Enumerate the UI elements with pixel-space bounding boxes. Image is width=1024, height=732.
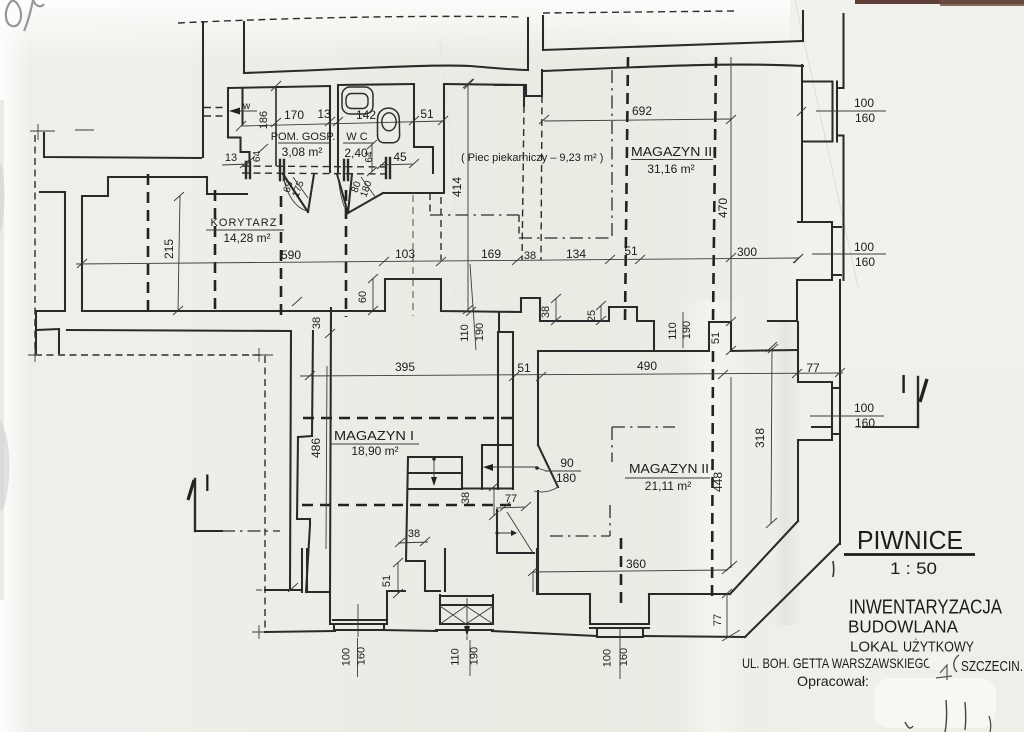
svg-text:38: 38	[540, 306, 552, 318]
svg-text:190: 190	[474, 323, 486, 341]
WC toilet	[378, 108, 400, 143]
dashed west boundary	[34, 135, 36, 355]
svg-text:51: 51	[381, 575, 393, 587]
svg-text:160: 160	[618, 648, 630, 666]
svg-text:64: 64	[252, 151, 263, 163]
wall: east inner below W2	[768, 280, 797, 321]
svg-text:45: 45	[393, 150, 407, 164]
ticks pom gosp top corner	[271, 79, 474, 91]
wall: south MAG II west part	[537, 549, 590, 594]
svg-text:BUDOWLANA: BUDOWLANA	[848, 617, 958, 637]
door MAG II leaf	[538, 445, 558, 487]
svg-text:14,28 m²: 14,28 m²	[223, 231, 270, 245]
door POM.GOSP swing	[283, 174, 314, 212]
svg-text:486: 486	[309, 438, 323, 458]
svg-text:110: 110	[450, 648, 462, 666]
svg-text:UŻYTKOWY: UŻYTKOWY	[903, 638, 974, 656]
svg-text:490: 490	[637, 359, 657, 373]
wall: below piec corner	[383, 192, 444, 194]
heavy dash bay B3 axis	[620, 538, 623, 606]
svg-text:38: 38	[524, 250, 536, 262]
svg-text:100: 100	[854, 96, 874, 110]
svg-text:60: 60	[357, 291, 369, 303]
svg-text:180: 180	[556, 471, 576, 485]
dim 486 vertical	[326, 366, 327, 549]
svg-text:( Piec piekarniczy – 9,23 m² ): ( Piec piekarniczy – 9,23 m² )	[461, 152, 603, 164]
handwritten remnants	[832, 561, 835, 577]
svg-text:395: 395	[395, 360, 415, 374]
svg-text:31,16 m²: 31,16 m²	[647, 162, 694, 176]
dim 77 bottom right	[722, 589, 740, 641]
wall: building top edge (inner)	[244, 66, 528, 73]
svg-text:100: 100	[854, 401, 874, 415]
wall: south wall MAG I area	[302, 549, 330, 592]
heavy dashed MAG III west	[625, 57, 628, 321]
svg-text:51: 51	[517, 361, 531, 375]
section mark left	[194, 479, 196, 531]
svg-text:38: 38	[408, 528, 420, 540]
dim 38 zigzag	[551, 294, 561, 325]
svg-text:INWENTARYZACJA: INWENTARYZACJA	[849, 597, 1003, 619]
wall: top-left corner block x528/x543	[527, 18, 529, 70]
svg-text:590: 590	[281, 248, 301, 262]
wall: POM.GOSP east / WC west	[330, 85, 338, 172]
wall: MAG I-II divider x513	[512, 332, 514, 489]
wall: MAG I west outer with niche	[297, 331, 313, 592]
svg-text:13: 13	[317, 107, 331, 121]
wall: MAG II west inner x538	[537, 351, 539, 594]
svg-text:100: 100	[602, 649, 614, 667]
white top band	[0, 0, 790, 60]
wall: drop x499	[499, 312, 513, 332]
wall: outer top edge y48 to NE corner	[543, 41, 803, 50]
svg-text:PIWNICE: PIWNICE	[857, 525, 963, 555]
svg-text:215: 215	[162, 239, 176, 259]
svg-text:160: 160	[356, 647, 368, 665]
chimney block MAG I	[406, 457, 462, 561]
stairs triangle	[497, 510, 534, 553]
wall: w-duct block	[228, 88, 250, 163]
dashed piec west verticals	[522, 106, 524, 260]
svg-text:LOKAL: LOKAL	[850, 639, 898, 656]
wall: long west vertical x291	[265, 331, 302, 590]
svg-text:51: 51	[420, 107, 434, 121]
dashed bottom-left boundary	[35, 354, 266, 356]
west cross mark	[44, 133, 201, 158]
svg-text:142: 142	[356, 108, 376, 122]
wall: east inner near W3	[797, 322, 799, 521]
handwriting 01 top-left	[6, 0, 44, 31]
svg-text:25: 25	[586, 310, 598, 322]
dim 414 vertical	[467, 83, 469, 310]
dim line y122 top rooms	[241, 121, 444, 126]
svg-text:103: 103	[395, 247, 415, 261]
svg-text:170: 170	[284, 108, 304, 122]
svg-text:77: 77	[806, 361, 820, 375]
dashed boundary x265	[264, 356, 266, 632]
svg-text:169: 169	[481, 247, 501, 261]
wall: MAG II north lower edge	[538, 350, 654, 352]
wall: east-mid horizontals	[654, 350, 797, 351]
heavy dashed MAG I north/south	[303, 417, 513, 420]
light dashed jamb x413	[412, 195, 414, 316]
heavy dashed MAG III east	[713, 57, 716, 322]
wall: piec step	[495, 70, 542, 96]
svg-text:3,08 m²: 3,08 m²	[282, 145, 323, 159]
wall: corridor west	[81, 196, 83, 311]
wall: vertical x203 top	[202, 22, 204, 157]
dim 215 vertical	[178, 196, 180, 311]
svg-text:Opracował:: Opracował:	[797, 673, 869, 689]
svg-text:186: 186	[258, 111, 270, 129]
dim 100/160 bay B1	[357, 604, 359, 637]
heavy dashed interior lines KORYTARZ	[147, 174, 150, 313]
svg-text:300: 300	[737, 245, 757, 259]
section mark right	[917, 377, 919, 427]
window bay B3	[590, 594, 649, 637]
svg-text:KORYTARZ: KORYTARZ	[211, 217, 278, 229]
dim 110/190 bay B2	[466, 636, 468, 640]
left edge scan smudges	[0, 160, 5, 235]
building bottom edge	[265, 630, 745, 637]
dim 110/190 left-mid rotated	[470, 264, 476, 350]
svg-text:100: 100	[854, 240, 874, 254]
small ticks	[288, 115, 778, 592]
dim 360	[533, 570, 727, 572]
window W1 right wall top	[803, 82, 844, 142]
wall: SE chamfer outer	[745, 544, 839, 637]
main dim line y263	[76, 258, 798, 264]
svg-text:318: 318	[753, 428, 767, 448]
wall: vertical x244 + top edge y71	[243, 22, 245, 72]
wall: inner top edge y70 right part	[543, 65, 803, 71]
svg-text:21,11 m²: 21,11 m²	[645, 479, 691, 493]
wall: piec east solid top	[523, 85, 525, 106]
dim 51 south notch	[393, 558, 403, 598]
dim 25 zigzag	[596, 301, 606, 325]
svg-text:414: 414	[450, 177, 464, 197]
wall: POM.GOSP top	[228, 86, 330, 88]
wall: NE corner verticals	[802, 11, 804, 41]
wall: piec west	[443, 84, 445, 192]
dim 448 vertical	[730, 377, 732, 568]
wall: SE chamfer inner	[730, 521, 798, 594]
wall: far west room block	[36, 192, 65, 330]
wall: top dashed boundary line	[178, 16, 521, 23]
dim 318 vertical	[771, 348, 772, 524]
svg-text:w: w	[242, 101, 251, 112]
partition bars	[246, 158, 390, 180]
dim 60	[368, 274, 378, 315]
svg-text:160: 160	[855, 255, 875, 269]
svg-text:160: 160	[855, 111, 875, 125]
svg-text:190: 190	[681, 321, 693, 339]
svg-text:100: 100	[341, 648, 353, 666]
wall: west piers bottom	[36, 329, 59, 353]
svg-text:77: 77	[505, 493, 517, 505]
wall: corridor upper-left	[82, 177, 247, 196]
arrow bay B2	[466, 598, 468, 631]
wall: corridor bottom band upper edge with pilaster	[82, 279, 521, 312]
svg-text:77: 77	[712, 614, 724, 626]
dim 692 line	[544, 119, 731, 121]
svg-text:38: 38	[460, 492, 472, 504]
svg-text:110: 110	[459, 324, 471, 342]
window W2 right wall	[798, 222, 841, 280]
wall: zigzag mid (MAG II north)	[521, 298, 654, 351]
dim 470 vertical	[730, 57, 732, 322]
svg-text:W C: W C	[346, 131, 367, 143]
dark scan edge top right	[855, 0, 1024, 4]
svg-text:2,40: 2,40	[344, 146, 368, 160]
wall: WC east with notch	[414, 84, 433, 173]
wall: south MAG II east part	[649, 593, 730, 595]
svg-text:I: I	[900, 369, 907, 399]
dim 110/190 mid rotated	[682, 312, 684, 348]
wall: south notch	[387, 549, 445, 591]
wall: piec top	[444, 84, 526, 85]
chimney east piece + door arrow MAG II	[462, 445, 513, 489]
window bay B1	[330, 591, 387, 630]
svg-text:692: 692	[632, 104, 652, 118]
svg-text:MAGAZYN I: MAGAZYN I	[334, 429, 414, 443]
wall: corridor bottom band lower edge	[67, 330, 291, 331]
svg-text:MAGAZYN III: MAGAZYN III	[631, 145, 716, 159]
dim line y377	[300, 373, 843, 376]
window bay B2 with X	[436, 595, 493, 630]
wall: MAG I west inner	[330, 308, 331, 592]
svg-text:38: 38	[311, 317, 323, 329]
svg-text:360: 360	[626, 557, 646, 571]
svg-text:1 : 50: 1 : 50	[890, 559, 937, 578]
svg-text:134: 134	[566, 247, 586, 261]
svg-text:POM. GOSP.: POM. GOSP.	[271, 131, 336, 143]
door WC swing	[337, 174, 383, 213]
WC washbasin	[342, 87, 373, 114]
svg-text:90: 90	[560, 456, 574, 470]
partition double dashed wall	[242, 166, 390, 167]
whiteout blobs	[928, 653, 962, 670]
svg-text:190: 190	[469, 647, 481, 665]
svg-text:13: 13	[225, 152, 237, 164]
svg-text:UL. BOH. GETTA WARSZAWSKIEGO: UL. BOH. GETTA WARSZAWSKIEGO	[742, 655, 932, 671]
wall: MAG I east inner x498	[497, 332, 499, 489]
svg-text:I: I	[204, 470, 211, 497]
svg-text:51: 51	[624, 244, 638, 258]
piec region dash-dot boundary	[429, 193, 431, 215]
svg-text:MAGAZYN II: MAGAZYN II	[629, 462, 709, 476]
svg-text:18,90 m²: 18,90 m²	[351, 444, 398, 458]
heavy dashed MAG II east	[712, 351, 713, 600]
window W3 right wall	[798, 382, 840, 440]
svg-text:470: 470	[716, 198, 730, 218]
wall: POM.GOSP west	[275, 86, 277, 166]
dash-dot interior MAG II	[612, 427, 675, 462]
svg-text:448: 448	[711, 472, 725, 492]
svg-text:110: 110	[667, 322, 679, 340]
svg-text:51: 51	[710, 332, 722, 344]
wall: WC top	[338, 84, 414, 85]
wall: east outer mid	[839, 280, 841, 544]
dim 100/160 bay B3	[619, 628, 621, 679]
svg-text:SZCZECIN.: SZCZECIN.	[961, 659, 1023, 675]
